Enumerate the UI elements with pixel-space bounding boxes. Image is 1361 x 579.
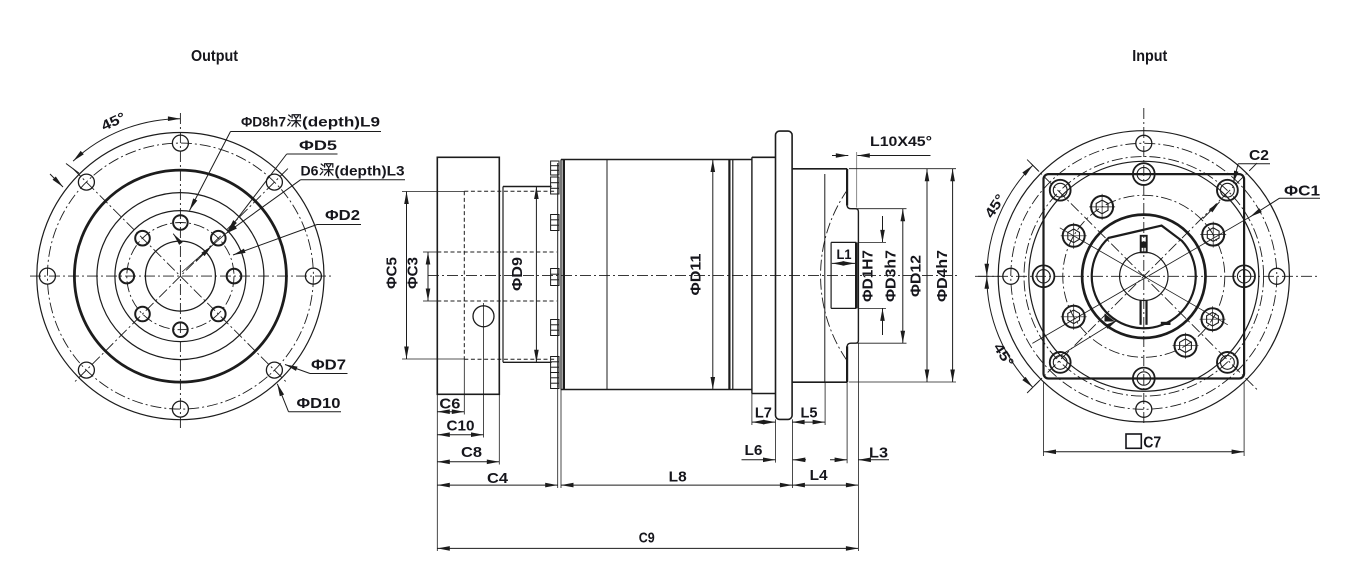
45deg extension tick NW	[66, 164, 79, 174]
svg-text:L6: L6	[745, 442, 763, 459]
svg-text:Output: Output	[191, 48, 239, 65]
cap screws on ring gear face	[551, 161, 559, 175]
input diagonal centerline NE-SW	[1031, 163, 1257, 389]
PhiC3 dimension	[423, 251, 437, 253]
C8 dimension	[437, 461, 499, 463]
L8 dimension	[561, 484, 792, 486]
input housing circle	[1029, 161, 1259, 391]
input shaft bore circle	[1120, 252, 1168, 300]
svg-text:ΦD9: ΦD9	[509, 257, 526, 291]
output flange rectangle (side view)	[437, 157, 499, 394]
PhiD11 dimension	[712, 160, 714, 390]
slit left wedge	[1105, 314, 1116, 322]
svg-text:(depth)L3: (depth)L3	[335, 163, 405, 179]
svg-text:ΦC5: ΦC5	[384, 257, 401, 289]
svg-text:L10X45°: L10X45°	[870, 133, 932, 149]
output hub circle	[145, 241, 215, 311]
svg-text:C9: C9	[639, 529, 655, 546]
input view horizontal centerline	[978, 275, 1318, 277]
bottom extension lines	[436, 394, 438, 551]
svg-text:C4: C4	[487, 470, 509, 487]
C9 dimension	[437, 547, 858, 549]
bearing lip section	[752, 156, 776, 158]
L7 dimension	[752, 421, 776, 423]
svg-text:ΦD4h7: ΦD4h7	[934, 250, 951, 302]
svg-text:L8: L8	[669, 469, 687, 486]
PhiD4h7 dimension	[952, 169, 954, 382]
svg-text:ΦD2: ΦD2	[325, 207, 360, 224]
6 socket head screws	[1202, 224, 1224, 246]
corner screw bolt circle (dash-dot)	[1024, 156, 1264, 396]
svg-text:Input: Input	[1132, 48, 1168, 65]
L3 dimension	[830, 459, 847, 461]
middle view main centerline	[428, 274, 958, 276]
output outer bolt circle (dash-dot)	[47, 143, 313, 409]
output view diagonal centerline NW-SE	[73, 169, 288, 384]
input boss outline	[847, 206, 858, 347]
output flange outer circle	[37, 133, 324, 420]
leader PhiD8h7	[231, 131, 382, 133]
leader PhiD7	[310, 373, 348, 375]
input outer bolt circle (dash-dot)	[1011, 143, 1277, 409]
svg-text:ΦD1H7: ΦD1H7	[859, 250, 876, 302]
mounting flange (side view)	[776, 131, 793, 419]
45deg arc dimensions (input)	[987, 165, 1033, 276]
ring gear face lines	[557, 163, 559, 387]
hidden bore line PhiC5 bottom	[464, 358, 556, 360]
leader PhiD2	[317, 224, 361, 226]
svg-text:ΦD12: ΦD12	[908, 255, 925, 297]
PhiC1 diameter line through center	[1032, 217, 1250, 344]
input view vertical centerline	[1143, 108, 1145, 425]
svg-text:ΦD7: ΦD7	[311, 357, 346, 374]
8 outer mounting holes	[172, 135, 188, 151]
square motor flange	[1044, 174, 1245, 378]
svg-text:D6: D6	[301, 163, 319, 179]
4 outer holes N E S W	[1136, 135, 1152, 151]
side hole in flange	[473, 306, 494, 327]
leader D6 depth L3	[301, 179, 406, 181]
clamp collar inner circle with flat	[1092, 226, 1196, 329]
arrow on NE diagonal toward corner screw	[1203, 202, 1220, 219]
body internal vertical line	[606, 160, 608, 390]
L6 dimension	[742, 459, 776, 461]
L10X45 chamfer dimension	[832, 155, 848, 157]
body step line	[751, 157, 753, 393]
keyway	[1141, 236, 1147, 253]
arrow mark on NE diagonal	[196, 246, 212, 262]
C10 dimension	[437, 434, 483, 436]
inner screw circle (dash-dot)	[1063, 195, 1225, 357]
squareC7 dimension	[1043, 382, 1045, 456]
D9 cylinder section	[502, 187, 504, 363]
output inner bolt circle (dash-dot)	[127, 223, 234, 330]
C6 dimension	[437, 411, 464, 413]
output circle r83	[97, 193, 264, 360]
slit right foot	[1161, 322, 1171, 325]
PhiD3h7 dimension	[852, 208, 907, 210]
PhiC5 dimension	[402, 191, 464, 193]
hidden bore line PhiC3 bottom	[437, 300, 556, 302]
input housing outline	[792, 168, 847, 170]
input flange outer circle	[998, 131, 1289, 422]
L1 dimension	[832, 262, 855, 264]
svg-text:ΦC1: ΦC1	[1284, 183, 1320, 200]
svg-text:C10: C10	[447, 418, 475, 435]
input diagonal centerline NW-SE	[1031, 163, 1257, 389]
output view diagonal centerline NE-SW	[73, 169, 288, 384]
leader PhiD10	[289, 411, 342, 413]
svg-text:ΦD3h7: ΦD3h7	[882, 250, 899, 302]
svg-text:ΦC3: ΦC3	[405, 257, 422, 289]
screw pattern axis line B	[1060, 228, 1228, 325]
4 corner screws	[1050, 180, 1071, 201]
output circle r65	[115, 211, 246, 342]
svg-text:C7: C7	[1143, 435, 1161, 452]
svg-text:L4: L4	[810, 467, 829, 484]
svg-text:ΦD10: ΦD10	[297, 395, 341, 412]
arrow mark near north hole	[173, 234, 181, 244]
stray arrow at left edge	[50, 174, 63, 187]
PhiD1H7 dimension	[858, 241, 886, 243]
45deg arc dimension (output)	[73, 119, 180, 161]
hidden bore line PhiC3 top	[437, 251, 556, 253]
svg-text:C2: C2	[1249, 147, 1269, 164]
svg-text:ΦD5: ΦD5	[299, 137, 337, 153]
C2 leader	[1238, 163, 1270, 165]
output view vertical centerline	[179, 113, 181, 428]
output view horizontal centerline	[30, 275, 333, 277]
8 inner tapped holes	[173, 215, 188, 230]
svg-text:C6: C6	[439, 396, 460, 413]
SW extension tick	[1027, 381, 1039, 393]
svg-text:(depth)L9: (depth)L9	[302, 114, 380, 130]
leader D6 continuation to center	[182, 234, 225, 272]
svg-text:C8: C8	[461, 444, 482, 461]
svg-text:ΦD11: ΦD11	[688, 254, 705, 296]
svg-text:L1: L1	[837, 246, 852, 262]
hidden bore line PhiC5 top	[464, 190, 556, 192]
L5 dimension	[792, 421, 825, 423]
4 edge-center screws	[1033, 265, 1055, 287]
L4 dimension	[792, 484, 858, 486]
PhiD12 dimension	[849, 168, 956, 170]
NW extension tick	[1027, 160, 1039, 172]
svg-text:L5: L5	[801, 405, 818, 422]
input bolt circle arc (dash-dot)	[821, 189, 848, 361]
PhiD9 dimension	[535, 187, 537, 363]
main gearbox body outline	[561, 159, 752, 161]
clamp collar outer circle	[1082, 215, 1205, 338]
C4 dimension	[437, 484, 557, 486]
body joint double line	[728, 160, 730, 390]
leader PhiD5	[287, 153, 338, 155]
leader with arrow at clamp circle	[1053, 320, 1117, 360]
W extension line	[975, 275, 1000, 277]
side hole centerline	[483, 303, 485, 438]
output thick circle	[74, 170, 286, 382]
PhiC1 leader	[1280, 197, 1321, 199]
svg-text:ΦD8h7: ΦD8h7	[241, 114, 286, 130]
input recess vertical line	[824, 174, 826, 382]
clamp slit	[1139, 301, 1141, 325]
svg-text:L7: L7	[755, 405, 772, 422]
svg-text:L3: L3	[869, 445, 888, 462]
input shaft bore	[831, 241, 856, 243]
hidden vertical line flange recess	[463, 191, 465, 359]
